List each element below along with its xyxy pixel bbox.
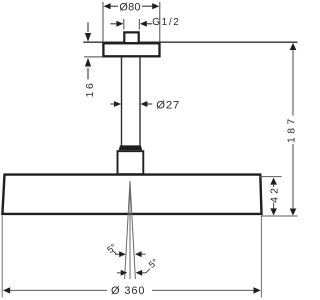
dimension O360 extension lines bbox=[2, 216, 261, 298]
shower head bbox=[2, 175, 261, 214]
connector block bbox=[118, 151, 144, 174]
angle callout 5 upper bbox=[105, 242, 145, 258]
svg-text:G1/2: G1/2 bbox=[152, 17, 180, 28]
svg-text:16: 16 bbox=[85, 81, 96, 98]
dimension 187 line bbox=[292, 49, 294, 209]
nut bbox=[119, 145, 143, 150]
svg-text:42: 42 bbox=[270, 185, 281, 203]
dimension O360 line bbox=[10, 289, 255, 291]
extension line head bottom right bbox=[261, 215, 298, 217]
dimension O80 extension lines bbox=[103, 2, 160, 42]
dimension G1/2 ticks bbox=[124, 19, 140, 30]
svg-text:Ø 360: Ø 360 bbox=[111, 285, 145, 297]
svg-text:Ø27: Ø27 bbox=[156, 99, 180, 111]
svg-text:Ø80: Ø80 bbox=[119, 2, 140, 14]
ceiling line bbox=[83, 41, 297, 43]
dimension O27 arrows bbox=[110, 103, 152, 105]
dimension O80 arrows bbox=[111, 5, 153, 7]
pipe bbox=[122, 57, 141, 147]
connector stub G1/2 bbox=[124, 32, 138, 42]
dimension G1/2 arrows bbox=[110, 23, 152, 25]
dimension 16 extension line bbox=[84, 56, 103, 58]
dimension 16 arrows bbox=[87, 22, 89, 79]
svg-text:187: 187 bbox=[286, 115, 297, 143]
flange bbox=[103, 43, 159, 56]
extension line head top right bbox=[259, 176, 282, 178]
angle callout 5 lower bbox=[117, 257, 160, 276]
dimension 42 line bbox=[273, 184, 275, 209]
spray lines bbox=[125, 181, 136, 279]
